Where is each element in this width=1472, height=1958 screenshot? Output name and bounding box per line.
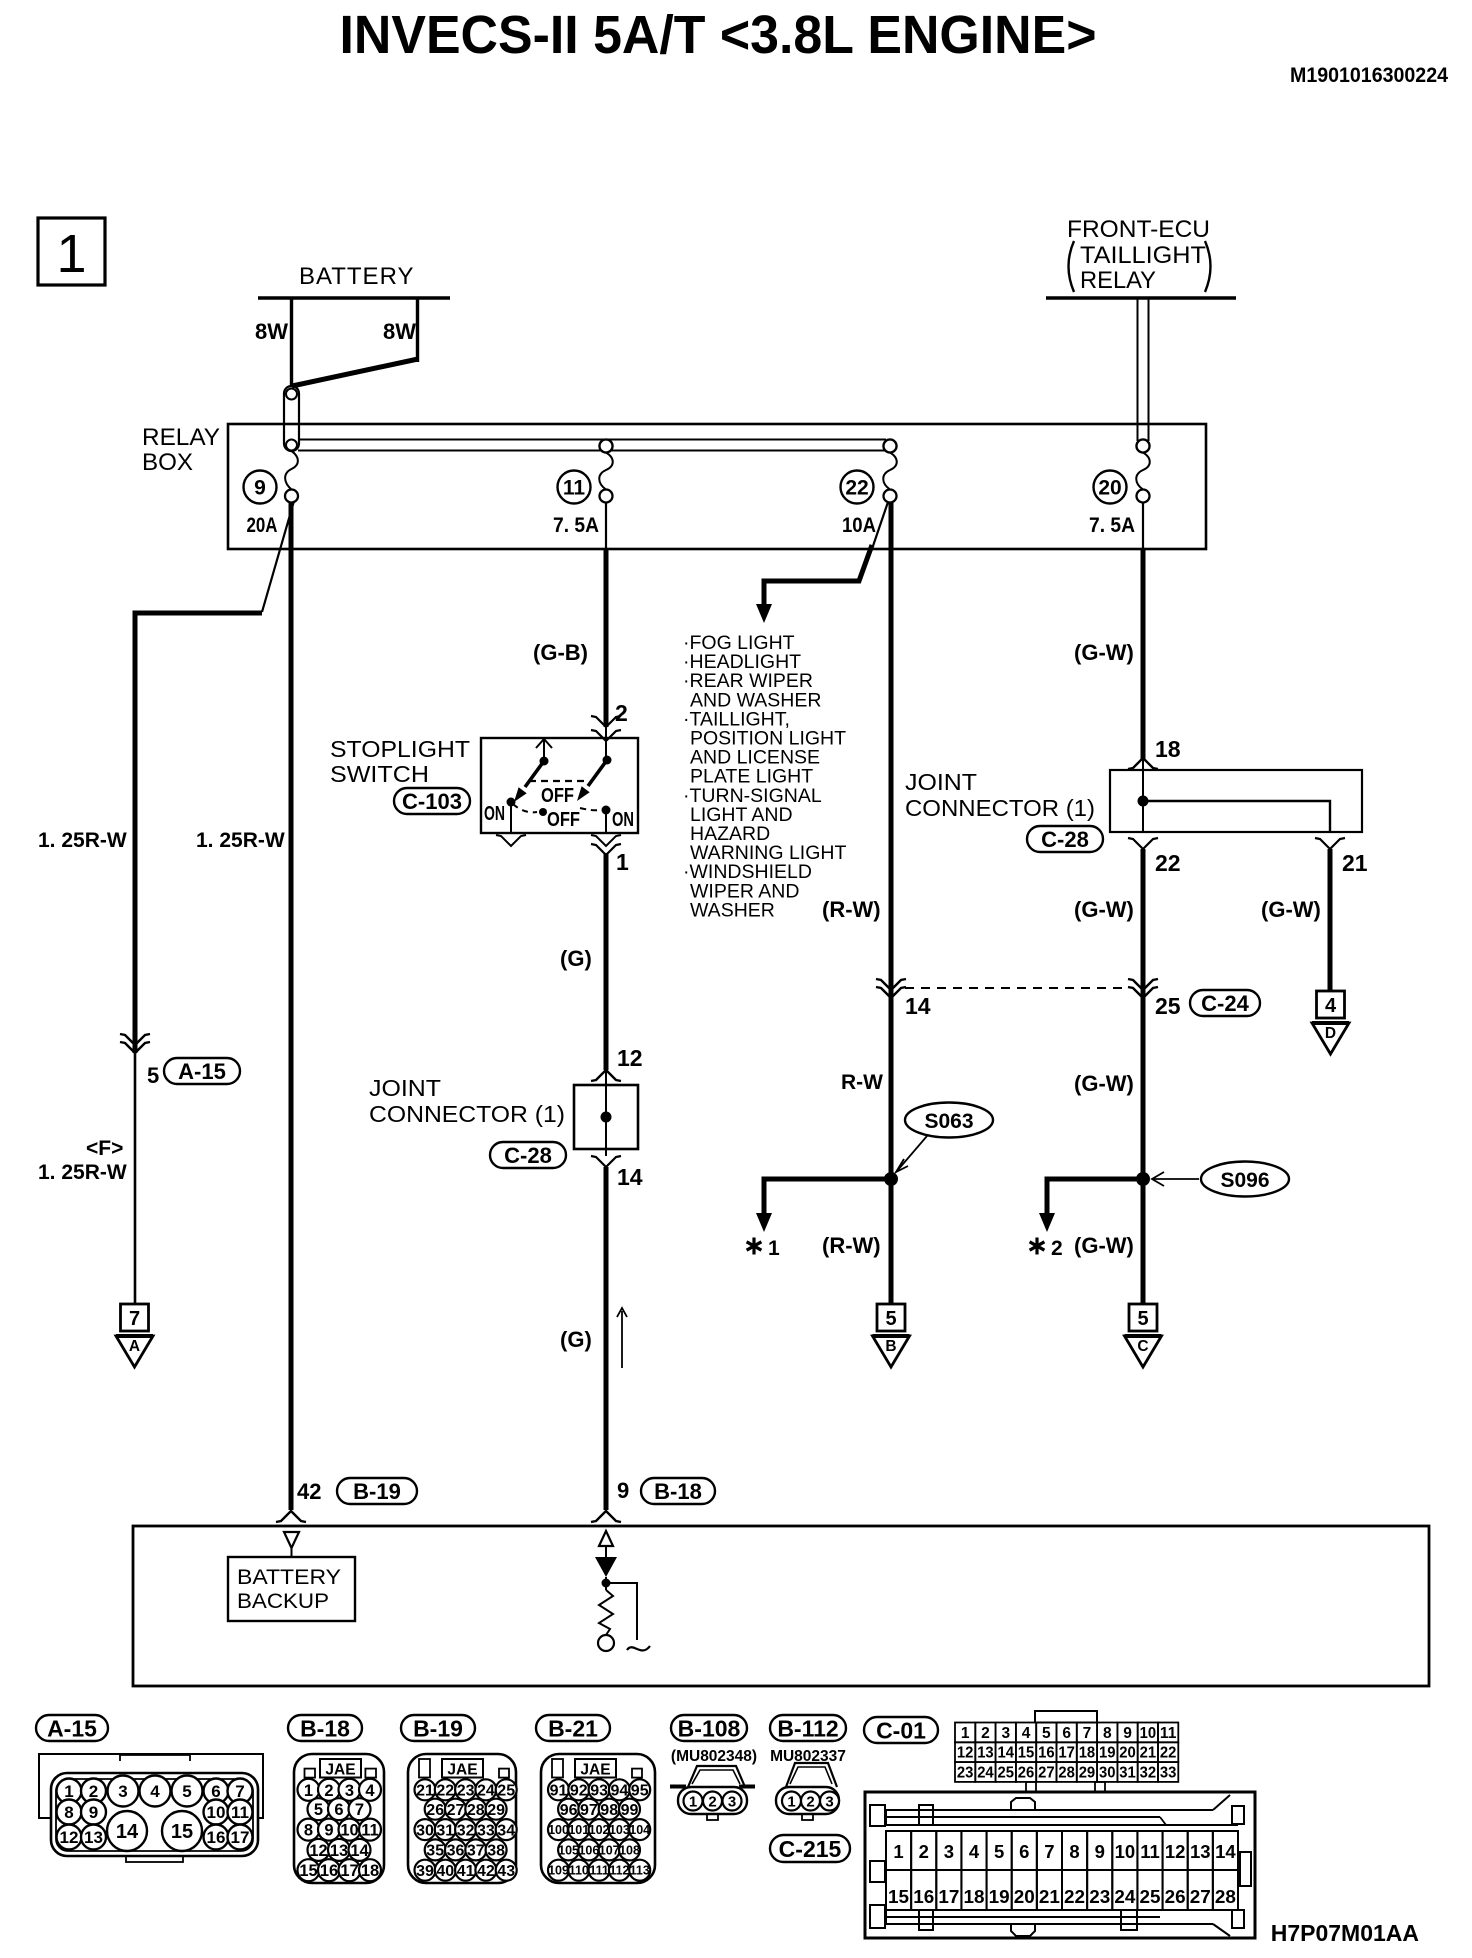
svg-text:1: 1 bbox=[689, 1794, 697, 1811]
frame number 1 box bbox=[38, 218, 105, 285]
svg-text:36: 36 bbox=[447, 1843, 465, 1860]
joint connector right node bbox=[1138, 796, 1149, 807]
svg-text:5: 5 bbox=[182, 1782, 191, 1801]
svg-text:(R-W): (R-W) bbox=[822, 1233, 881, 1258]
label pin 14 C-24 bbox=[905, 993, 931, 1019]
svg-text:7: 7 bbox=[1044, 1841, 1054, 1862]
svg-text:8: 8 bbox=[64, 1803, 73, 1822]
svg-text:S063: S063 bbox=[924, 1110, 973, 1133]
connector crossing 14 C-24 bbox=[876, 979, 906, 998]
svg-text:93: 93 bbox=[590, 1783, 608, 1800]
svg-text:7: 7 bbox=[129, 1308, 140, 1330]
connector crossing 25 C-24 bbox=[1128, 979, 1158, 998]
svg-text:21: 21 bbox=[1342, 850, 1368, 876]
svg-text:18: 18 bbox=[964, 1886, 985, 1907]
svg-text:96: 96 bbox=[560, 1802, 578, 1819]
label R-W bbox=[841, 1071, 883, 1094]
svg-text:107: 107 bbox=[599, 1843, 620, 1857]
svg-text:B-19: B-19 bbox=[353, 1479, 401, 1504]
title text bbox=[340, 5, 1097, 65]
svg-text:4: 4 bbox=[1325, 995, 1337, 1017]
wire fuse20 output bbox=[1141, 549, 1146, 760]
svg-text:7. 5A: 7. 5A bbox=[1089, 514, 1135, 537]
svg-text:14: 14 bbox=[998, 1745, 1015, 1762]
svg-text:21: 21 bbox=[1039, 1886, 1060, 1907]
svg-text:18: 18 bbox=[1155, 736, 1181, 762]
svg-text:10: 10 bbox=[1140, 1725, 1157, 1742]
svg-text:2: 2 bbox=[615, 700, 628, 726]
splice S096 bbox=[1152, 1162, 1289, 1197]
connector B-112 part number bbox=[770, 1748, 846, 1765]
connector B-112 oval bbox=[770, 1715, 846, 1741]
svg-text:21: 21 bbox=[1140, 1745, 1157, 1762]
fuse 20 stub wire bbox=[1142, 502, 1144, 549]
label (R-W) upper bbox=[822, 897, 881, 922]
connector B-19 bottom oval bbox=[401, 1715, 475, 1741]
svg-text:5: 5 bbox=[314, 1801, 323, 1819]
svg-text:M1901016300224: M1901016300224 bbox=[1290, 64, 1448, 87]
svg-text:1. 25R-W: 1. 25R-W bbox=[38, 1161, 127, 1184]
connector crossing into stoplight switch bbox=[591, 716, 621, 741]
connector B-19 body bbox=[408, 1754, 516, 1883]
svg-text:3: 3 bbox=[728, 1794, 736, 1811]
svg-text:25: 25 bbox=[998, 1765, 1015, 1782]
svg-text:15: 15 bbox=[171, 1821, 193, 1843]
svg-text:OFF: OFF bbox=[547, 809, 580, 831]
svg-text:42: 42 bbox=[297, 1479, 321, 1504]
connector B-18 body bbox=[294, 1754, 384, 1883]
svg-text:C: C bbox=[1137, 1338, 1148, 1355]
svg-text:20: 20 bbox=[1098, 477, 1121, 500]
svg-text:(G-B): (G-B) bbox=[533, 640, 588, 665]
svg-text:27: 27 bbox=[447, 1802, 465, 1819]
svg-text:JAE: JAE bbox=[580, 1762, 610, 1779]
svg-text:19: 19 bbox=[1099, 1745, 1116, 1762]
connector A-15 oval bbox=[36, 1715, 108, 1741]
svg-text:(MU802348): (MU802348) bbox=[671, 1748, 757, 1765]
switch dashed arc left bbox=[513, 804, 537, 812]
svg-text:101: 101 bbox=[568, 1823, 589, 1837]
stoplight switch box bbox=[481, 738, 638, 833]
svg-text:7. 5A: 7. 5A bbox=[553, 514, 599, 537]
svg-text:103: 103 bbox=[609, 1823, 630, 1837]
svg-text:D: D bbox=[1325, 1025, 1336, 1042]
fuse 20 (7.5A) bbox=[1089, 440, 1150, 538]
svg-text:1: 1 bbox=[961, 1725, 970, 1742]
svg-text:5: 5 bbox=[994, 1841, 1004, 1862]
connector crossing 42 into ECU bbox=[276, 1511, 306, 1522]
connector C-103 bbox=[394, 788, 470, 814]
svg-text:18: 18 bbox=[1079, 1745, 1096, 1762]
svg-text:B: B bbox=[885, 1338, 896, 1355]
svg-text:28: 28 bbox=[1058, 1765, 1075, 1782]
label 1.25R-W lower bbox=[38, 1161, 127, 1184]
svg-text:B-19: B-19 bbox=[413, 1715, 463, 1741]
svg-text:6: 6 bbox=[1062, 1725, 1071, 1742]
svg-text:BATTERY: BATTERY bbox=[237, 1566, 341, 1589]
svg-text:10A: 10A bbox=[842, 514, 876, 537]
svg-text:17: 17 bbox=[340, 1862, 358, 1880]
stoplight switch left pole bbox=[514, 739, 552, 802]
fuse 22 (10A) bbox=[841, 440, 897, 538]
svg-text:4: 4 bbox=[365, 1782, 375, 1800]
connector B-108 body bbox=[670, 1766, 755, 1820]
label pin 25 bbox=[1155, 993, 1181, 1019]
svg-text:1. 25R-W: 1. 25R-W bbox=[196, 829, 285, 852]
bus node fuse 11 bbox=[600, 440, 613, 453]
svg-text:(G-W): (G-W) bbox=[1074, 1071, 1134, 1096]
svg-text:16: 16 bbox=[207, 1828, 226, 1847]
junction node S096 bbox=[1136, 1172, 1150, 1186]
svg-text:5: 5 bbox=[1137, 1308, 1148, 1330]
svg-text:22: 22 bbox=[845, 477, 868, 500]
svg-text:32: 32 bbox=[1140, 1765, 1157, 1782]
label (G-W) branch right bbox=[1261, 897, 1321, 922]
svg-text:6: 6 bbox=[1019, 1841, 1029, 1862]
svg-text:29: 29 bbox=[1079, 1765, 1096, 1782]
svg-text:98: 98 bbox=[600, 1802, 618, 1819]
svg-text:26: 26 bbox=[426, 1802, 444, 1819]
svg-text:1: 1 bbox=[616, 849, 629, 875]
svg-text:24: 24 bbox=[1114, 1886, 1136, 1907]
svg-text:13: 13 bbox=[330, 1842, 348, 1860]
connector B-19 oval ref bbox=[337, 1478, 417, 1504]
wire fuse9 to B-19 label bbox=[297, 1479, 321, 1504]
svg-text:12: 12 bbox=[309, 1842, 327, 1860]
svg-text:31: 31 bbox=[436, 1822, 454, 1839]
splice S063 bbox=[896, 1103, 993, 1173]
svg-text:113: 113 bbox=[630, 1864, 650, 1878]
bus bar in relay box bbox=[298, 440, 886, 451]
connector B-112 body bbox=[776, 1763, 839, 1820]
svg-text:43: 43 bbox=[497, 1863, 515, 1880]
svg-text:CONNECTOR (1): CONNECTOR (1) bbox=[369, 1101, 565, 1127]
label 1.25R-W left bbox=[38, 829, 127, 852]
svg-text:<F>: <F> bbox=[86, 1137, 123, 1160]
connector C-01 oval bbox=[864, 1717, 938, 1743]
svg-text:C-28: C-28 bbox=[504, 1143, 552, 1168]
svg-text:23: 23 bbox=[457, 1783, 475, 1800]
junction node S063 bbox=[884, 1172, 898, 1186]
svg-text:6: 6 bbox=[334, 1801, 343, 1819]
switch OFF upper bbox=[541, 785, 574, 807]
svg-text:9: 9 bbox=[1123, 1725, 1132, 1742]
svg-text:C-24: C-24 bbox=[1201, 991, 1249, 1016]
board connector triangle 9 bbox=[599, 1531, 613, 1557]
wire fuse22 mid bbox=[889, 993, 894, 1173]
svg-text:1: 1 bbox=[64, 1782, 73, 1801]
svg-text:20A: 20A bbox=[247, 514, 278, 537]
joint connector (1) left box bbox=[574, 1085, 638, 1149]
svg-text:30: 30 bbox=[1099, 1765, 1116, 1782]
svg-text:12: 12 bbox=[957, 1745, 974, 1762]
svg-text:TAILLIGHT: TAILLIGHT bbox=[1080, 242, 1206, 269]
svg-text:91: 91 bbox=[550, 1783, 568, 1800]
direction arrow up bbox=[617, 1308, 627, 1368]
board connector triangle 42 bbox=[284, 1532, 299, 1557]
wire through right joint connector bbox=[1142, 770, 1144, 832]
svg-text:28: 28 bbox=[1215, 1886, 1236, 1907]
svg-text:9: 9 bbox=[254, 477, 266, 500]
label pin 22 bbox=[1155, 850, 1181, 876]
label pin 18 bbox=[1155, 736, 1181, 762]
svg-text:14: 14 bbox=[116, 1821, 139, 1843]
svg-text:10: 10 bbox=[340, 1822, 358, 1840]
svg-text:2: 2 bbox=[1051, 1237, 1063, 1260]
connector C-24 oval bbox=[1190, 990, 1260, 1016]
resistor ground circle bbox=[598, 1635, 614, 1651]
svg-text:B-112: B-112 bbox=[777, 1715, 838, 1741]
connector crossing 9 into ECU bbox=[591, 1511, 621, 1522]
svg-text:32: 32 bbox=[457, 1822, 475, 1839]
svg-text:1: 1 bbox=[304, 1782, 313, 1800]
joint connector (1) left label bbox=[369, 1075, 565, 1127]
label (G) lower bbox=[560, 1327, 592, 1352]
connector crossing into joint connector right bbox=[1128, 758, 1158, 771]
label <F> bbox=[86, 1137, 123, 1160]
wire fuse20 mid bbox=[1141, 849, 1146, 998]
label pin 12 bbox=[617, 1045, 643, 1071]
svg-text:B-21: B-21 bbox=[548, 1715, 598, 1741]
svg-text:30: 30 bbox=[416, 1822, 434, 1839]
front-ecu label bbox=[1067, 216, 1211, 294]
svg-text:A: A bbox=[129, 1338, 140, 1355]
ground ref 4 D bbox=[1312, 991, 1349, 1054]
svg-text:9: 9 bbox=[89, 1803, 98, 1822]
wire to B-18 bbox=[604, 1167, 609, 1510]
stoplight switch label bbox=[330, 736, 470, 787]
svg-text:11: 11 bbox=[231, 1803, 249, 1822]
label 1.25R-W mid bbox=[196, 829, 285, 852]
svg-text:2: 2 bbox=[324, 1782, 333, 1800]
svg-text:(G-W): (G-W) bbox=[1074, 897, 1134, 922]
connector C-28 right bbox=[1027, 826, 1103, 852]
connector B-21 body bbox=[541, 1754, 655, 1883]
svg-text:9: 9 bbox=[324, 1822, 333, 1840]
svg-text:109: 109 bbox=[548, 1864, 569, 1878]
label (G-W) top bbox=[1074, 640, 1134, 665]
wire joint connector branch bbox=[1143, 801, 1330, 832]
wire *2 branch bbox=[1039, 1179, 1143, 1232]
svg-text:10: 10 bbox=[1115, 1841, 1136, 1862]
stoplight switch right pole bbox=[577, 756, 612, 802]
svg-text:WASHER: WASHER bbox=[690, 899, 775, 921]
connector A-15 body bbox=[39, 1754, 263, 1862]
svg-text:2: 2 bbox=[708, 1794, 716, 1811]
svg-text:31: 31 bbox=[1119, 1765, 1136, 1782]
svg-text:9: 9 bbox=[617, 1478, 629, 1503]
ETACS ECU box bbox=[133, 1526, 1429, 1686]
svg-text:ON: ON bbox=[484, 803, 505, 825]
svg-text:B-108: B-108 bbox=[678, 1715, 741, 1741]
resistor bbox=[599, 1590, 613, 1635]
svg-text:100: 100 bbox=[548, 1823, 569, 1837]
fuse 11 stub wire bbox=[605, 502, 607, 549]
svg-text:A-15: A-15 bbox=[178, 1059, 226, 1084]
svg-text:JAE: JAE bbox=[447, 1762, 477, 1779]
svg-text:104: 104 bbox=[629, 1823, 650, 1837]
svg-text:13: 13 bbox=[84, 1828, 103, 1847]
svg-text:14: 14 bbox=[350, 1842, 369, 1860]
svg-text:22: 22 bbox=[1064, 1886, 1085, 1907]
svg-text:2: 2 bbox=[89, 1782, 98, 1801]
svg-text:(G): (G) bbox=[560, 1327, 592, 1352]
svg-text:B-18: B-18 bbox=[300, 1715, 350, 1741]
svg-text:5: 5 bbox=[147, 1063, 159, 1088]
wire front-ecu to fuse 20 (double line) bbox=[1138, 299, 1149, 441]
ground ref 7 A bbox=[116, 1304, 153, 1367]
connector B-18 bottom oval bbox=[288, 1715, 362, 1741]
svg-text:106: 106 bbox=[578, 1843, 599, 1857]
front-ecu bus line bbox=[1046, 296, 1236, 299]
connector B-21 pins bbox=[548, 1779, 650, 1880]
wire battery right 8W bbox=[416, 297, 419, 362]
svg-text:2: 2 bbox=[981, 1725, 990, 1742]
wire switch output bbox=[591, 844, 621, 1070]
wire *1 branch bbox=[756, 1179, 891, 1232]
svg-text:26: 26 bbox=[1165, 1886, 1186, 1907]
connector C-01 grid bbox=[955, 1711, 1178, 1792]
svg-text:21: 21 bbox=[416, 1783, 434, 1800]
svg-text:B-18: B-18 bbox=[654, 1479, 702, 1504]
internal node bbox=[602, 1579, 611, 1588]
svg-text:11: 11 bbox=[361, 1822, 378, 1840]
svg-text:19: 19 bbox=[989, 1886, 1010, 1907]
label (R-W) lower bbox=[822, 1233, 881, 1258]
svg-text:3: 3 bbox=[1001, 1725, 1010, 1742]
svg-text:(G-W): (G-W) bbox=[1074, 640, 1134, 665]
svg-text:22: 22 bbox=[1160, 1745, 1177, 1762]
svg-text:110: 110 bbox=[569, 1864, 589, 1878]
svg-text:5: 5 bbox=[885, 1308, 896, 1330]
connector crossing out 21 bbox=[1315, 838, 1345, 849]
label *1 bbox=[747, 1237, 780, 1260]
label pin 21 bbox=[1342, 850, 1368, 876]
label 8W left bbox=[255, 319, 288, 344]
svg-text:3: 3 bbox=[118, 1782, 127, 1801]
svg-text:34: 34 bbox=[497, 1822, 515, 1839]
bus node fuse 22 bbox=[884, 440, 897, 453]
svg-text:22: 22 bbox=[1155, 850, 1181, 876]
svg-text:13: 13 bbox=[1190, 1841, 1211, 1862]
wire left branch lower bbox=[134, 1053, 137, 1304]
svg-text:1: 1 bbox=[56, 224, 86, 284]
svg-text:STOPLIGHT: STOPLIGHT bbox=[330, 736, 470, 762]
wire fuse9 slant to left branch bbox=[262, 501, 294, 612]
svg-text:2: 2 bbox=[919, 1841, 929, 1862]
svg-text:27: 27 bbox=[1190, 1886, 1211, 1907]
svg-text:1: 1 bbox=[893, 1841, 903, 1862]
connector crossing into joint connector bbox=[591, 1070, 621, 1081]
connector crossing out 22 bbox=[1128, 838, 1158, 849]
svg-text:20: 20 bbox=[1119, 1745, 1136, 1762]
wire fuse20 lower bbox=[1141, 993, 1146, 1173]
label pin 14 bbox=[617, 1164, 643, 1190]
wire fuse22 slant bbox=[873, 502, 888, 546]
svg-text:12: 12 bbox=[617, 1045, 643, 1071]
svg-text:RELAY: RELAY bbox=[1080, 267, 1156, 294]
joint connector left node bbox=[601, 1112, 612, 1123]
svg-text:41: 41 bbox=[457, 1863, 475, 1880]
battery backup box bbox=[228, 1557, 355, 1621]
doc number M1901016300224 bbox=[1290, 64, 1448, 87]
svg-text:20: 20 bbox=[1014, 1886, 1035, 1907]
label pin 1 bbox=[616, 849, 629, 875]
connector B-19 pins bbox=[415, 1779, 517, 1880]
svg-text:16: 16 bbox=[320, 1862, 338, 1880]
battery input connector capsule bbox=[284, 386, 299, 451]
svg-text:ON: ON bbox=[612, 809, 634, 831]
svg-text:7: 7 bbox=[235, 1782, 244, 1801]
svg-text:S096: S096 bbox=[1220, 1169, 1269, 1192]
svg-text:13: 13 bbox=[977, 1745, 994, 1762]
svg-text:R-W: R-W bbox=[841, 1071, 883, 1094]
svg-text:28: 28 bbox=[467, 1802, 485, 1819]
svg-text:111: 111 bbox=[589, 1864, 609, 1878]
svg-text:15: 15 bbox=[888, 1886, 909, 1907]
svg-text:99: 99 bbox=[621, 1802, 639, 1819]
wire fog arrow elbow bbox=[756, 545, 872, 623]
svg-text:BOX: BOX bbox=[142, 449, 193, 476]
svg-text:23: 23 bbox=[957, 1765, 974, 1782]
svg-text:97: 97 bbox=[580, 1802, 598, 1819]
svg-text:8: 8 bbox=[1069, 1841, 1079, 1862]
wire into switch bbox=[605, 727, 607, 760]
svg-text:15: 15 bbox=[299, 1862, 317, 1880]
wire to ground B bbox=[889, 1179, 894, 1304]
svg-text:102: 102 bbox=[589, 1823, 610, 1837]
fuse 11 (7.5A) bbox=[553, 440, 613, 538]
joint connector (1) right box bbox=[1110, 770, 1362, 832]
label pin 2 bbox=[615, 700, 628, 726]
connector C-215 oval bbox=[770, 1835, 850, 1862]
svg-text:25: 25 bbox=[1140, 1886, 1161, 1907]
svg-text:12: 12 bbox=[1165, 1841, 1186, 1862]
joint connector (1) right label bbox=[905, 769, 1095, 821]
svg-text:7: 7 bbox=[355, 1801, 364, 1819]
ground ref 5 C bbox=[1125, 1304, 1162, 1367]
svg-text:4: 4 bbox=[969, 1841, 980, 1862]
svg-text:33: 33 bbox=[477, 1822, 495, 1839]
svg-text:17: 17 bbox=[1058, 1745, 1075, 1762]
connector crossing out of joint connector bbox=[591, 1156, 621, 1167]
svg-text:27: 27 bbox=[1038, 1765, 1055, 1782]
label (G) upper bbox=[560, 946, 592, 971]
svg-text:CONNECTOR (1): CONNECTOR (1) bbox=[905, 795, 1095, 821]
svg-text:40: 40 bbox=[436, 1863, 454, 1880]
svg-text:23: 23 bbox=[1089, 1886, 1110, 1907]
svg-text:SWITCH: SWITCH bbox=[330, 761, 429, 787]
svg-text:12: 12 bbox=[60, 1828, 79, 1847]
svg-text:6: 6 bbox=[211, 1782, 220, 1801]
svg-text:(G-W): (G-W) bbox=[1261, 897, 1321, 922]
label 8W right bbox=[383, 319, 416, 344]
label (G-W) mid left bbox=[1074, 897, 1134, 922]
svg-text:4: 4 bbox=[1022, 1725, 1031, 1742]
connector B-21 bottom oval bbox=[536, 1715, 610, 1741]
svg-text:17: 17 bbox=[938, 1886, 959, 1907]
svg-text:C-215: C-215 bbox=[779, 1836, 842, 1862]
svg-text:3: 3 bbox=[944, 1841, 954, 1862]
svg-text:14: 14 bbox=[617, 1164, 643, 1190]
svg-text:7: 7 bbox=[1083, 1725, 1092, 1742]
wire through joint connector bbox=[605, 1070, 607, 1156]
ground ref 5 B bbox=[873, 1304, 910, 1367]
connector crossing 5 A-15 bbox=[120, 1034, 150, 1053]
switch ON right bbox=[591, 806, 634, 847]
label (G-W) at *2 bbox=[1074, 1233, 1134, 1258]
svg-text:22: 22 bbox=[436, 1783, 454, 1800]
